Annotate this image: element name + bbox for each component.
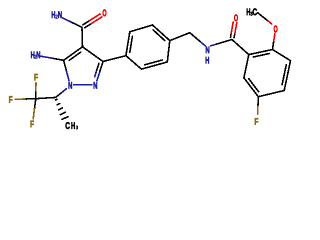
bond B5 - F (aryl)	[257, 97, 260, 115]
hashed wedge CH to CH3 (stereo bond)	[56, 99, 69, 119]
label H2N (amino NH2)	[31, 52, 34, 58]
phenylene A4-A5 bond	[167, 41, 170, 62]
benzene B5=B6 double bond	[244, 78, 259, 97]
pyrazole C4=C5 double bond	[64, 47, 83, 61]
pyrazole N2=C3 double bond	[95, 62, 103, 81]
double bond C=O (carboxamide)	[83, 14, 102, 28]
pyrazole C5-N1 bond	[64, 60, 69, 80]
benzene B3=B4 double bond	[282, 61, 291, 91]
bond A4 - CH2 (benzylic)	[170, 33, 190, 41]
benzene B4-B5 bond	[258, 91, 284, 97]
bond pyrazole C3 - phenylene A1	[103, 56, 126, 62]
pyrazole N1-N2 bond	[74, 84, 92, 86]
phenylene A1=A2 double bond	[126, 32, 132, 56]
bond CH2 - amide NH	[190, 33, 206, 46]
label F (CF3 bottom)	[30, 121, 33, 127]
phenylene A5=A6 double bond	[141, 60, 167, 69]
bond C-F bottom	[33, 99, 36, 119]
bond methoxy O - CH3	[258, 13, 272, 24]
benzene B1=B2 double bond	[249, 50, 273, 58]
phenylene A2-A3 bond	[130, 25, 153, 32]
label O (benzamide O)	[234, 15, 238, 22]
benzene B2-B3 bond	[273, 50, 291, 61]
double bond C=O (benzamide)	[231, 22, 237, 38]
pyrazole C4-C3 bond	[83, 47, 104, 62]
label O (carboxamide O)	[103, 10, 107, 17]
bond amide NH - carbonyl C	[211, 40, 232, 46]
label O (methoxy O)	[274, 26, 278, 33]
label F (CF3 top)	[34, 74, 37, 80]
label F (CF3 left)	[9, 96, 12, 102]
label N2 (pyrazole)	[94, 82, 98, 88]
label NH (benzamide NH)	[206, 47, 210, 53]
phenylene A3=A4 double bond	[153, 25, 170, 41]
label H3C (methoxy methyl)	[247, 9, 250, 15]
bond C-F left	[15, 98, 36, 101]
bond N1 - CH stereocenter	[56, 89, 67, 98]
benzene B6-B1 bond	[244, 55, 249, 78]
label CH3 (stereo methyl)	[65, 122, 69, 129]
phenylene A6-A1 bond	[126, 56, 141, 69]
label F (aryl F)	[255, 118, 258, 124]
bond C-F top	[35, 83, 37, 99]
label H2N (carboxamide NH2)	[52, 11, 55, 17]
bond CH - CF3 carbon	[36, 97, 56, 98]
bond C5 - amino NH2	[40, 56, 63, 60]
bond carbonyl C - pyrazole C4	[81, 29, 84, 47]
bond H2N-C (carboxamide)	[63, 18, 83, 28]
2D chemical structure drawing (pirtobrutinib)	[0, 0, 300, 142]
label N1 (pyrazole)	[68, 82, 72, 88]
bond B2 - methoxy O	[273, 33, 275, 49]
bond carbonyl C - benzene B1	[232, 40, 249, 55]
